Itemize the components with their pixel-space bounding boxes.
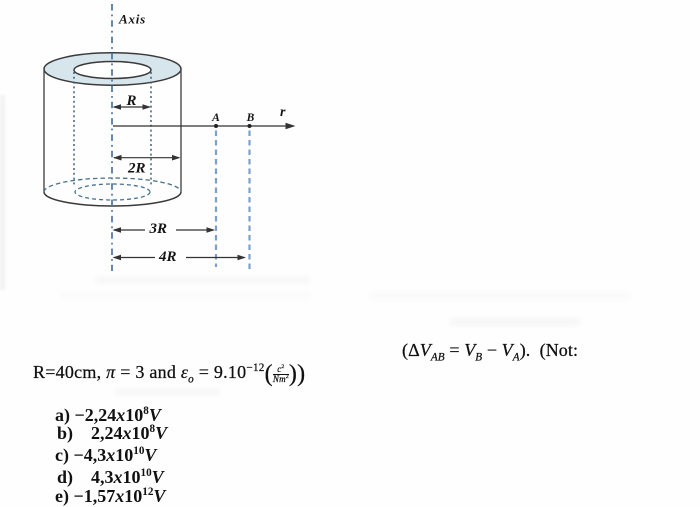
option c [55, 445, 156, 466]
r label [280, 105, 286, 120]
cylinder right side [180, 70, 182, 193]
ghost smudge 5 [115, 389, 220, 395]
svg-text:4R: 4R [158, 249, 177, 265]
axis dash-dot line [111, 4, 113, 271]
dimension arrow R [113, 104, 152, 110]
dimension arrow 3R [113, 227, 216, 233]
ghost smudge 2 [60, 292, 310, 298]
dashed drop line at A [215, 131, 217, 268]
ghost smudge 4 [450, 318, 580, 326]
cylinder outer top ellipse [44, 53, 181, 85]
dimension arrow 2R [113, 155, 181, 161]
label 2R [127, 160, 146, 176]
cylinder bottom back dashed arc [44, 178, 181, 192]
label 4R [158, 249, 177, 265]
svg-text:A: A [211, 112, 220, 124]
svg-text:R: R [126, 93, 137, 109]
cylinder annulus top fill [44, 53, 181, 85]
svg-text:Axis: Axis [118, 12, 146, 27]
node A label [211, 112, 220, 124]
label 3R [149, 221, 168, 237]
inner cylinder right dotted side [150, 72, 152, 185]
r axis line [113, 123, 296, 130]
inner cylinder bottom dashed ellipse [75, 184, 150, 200]
dashed drop line at B [248, 131, 250, 271]
ghost smudge 3 [370, 292, 630, 299]
svg-text:2R: 2R [127, 160, 146, 176]
option b [57, 423, 167, 444]
node A tick [214, 124, 218, 128]
option e [55, 486, 165, 507]
ghost smudge 1 [95, 276, 310, 284]
cylinder bottom front solid arc [44, 192, 181, 206]
option d [57, 467, 164, 488]
Axis label [118, 12, 146, 27]
cylinder left side [43, 70, 45, 193]
inner cylinder left dotted side [73, 72, 75, 185]
node B tick [248, 124, 252, 128]
scan edge band left [0, 95, 5, 290]
svg-text:r: r [280, 105, 286, 120]
cylinder inner top ellipse (hole) [74, 62, 151, 79]
label R [126, 93, 137, 109]
formula delta V [402, 340, 578, 361]
svg-text:B: B [246, 112, 255, 124]
dimension arrow 4R [113, 255, 247, 261]
option a [55, 405, 161, 426]
formula R=40cm line [33, 361, 305, 388]
node B label [246, 112, 255, 124]
svg-text:3R: 3R [149, 221, 168, 237]
